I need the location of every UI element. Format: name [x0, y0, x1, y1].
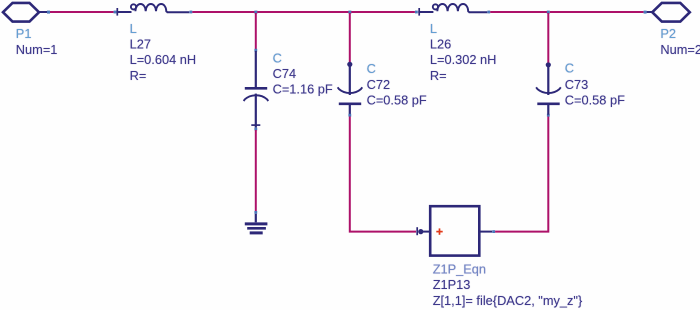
svg-text:L: L — [130, 21, 137, 36]
node marker C72 bottom — [348, 114, 351, 117]
wire node C74 down — [255, 13, 257, 50]
node marker wire-L27 — [114, 11, 117, 14]
svg-text:C73: C73 — [565, 77, 588, 92]
svg-text:C74: C74 — [273, 66, 296, 81]
wire C72 to Z1P13 — [350, 117, 416, 232]
node marker wire-L26 — [415, 11, 418, 14]
svg-text:Z1P13: Z1P13 — [433, 277, 471, 292]
node marker C73 bottom — [547, 114, 550, 117]
plus sign pin 1 — [436, 228, 442, 234]
junction dot C73 — [546, 62, 551, 67]
Z1P13 pin 2 lead — [479, 231, 492, 233]
Z1P_Eqn box Z1P13 — [430, 206, 479, 255]
wire L26 to node C73 — [490, 11, 547, 13]
svg-text:C: C — [565, 60, 574, 75]
wire L27 to node C74 — [192, 11, 255, 13]
wire node C74 to node C72 — [257, 11, 349, 13]
port P2 — [647, 3, 690, 22]
wire node C72 down — [349, 13, 351, 62]
node marker Z1P13 pin 2 — [492, 230, 495, 233]
svg-text:L26: L26 — [430, 37, 451, 52]
wire node C73 down — [547, 13, 549, 63]
svg-text:P2: P2 — [660, 26, 676, 41]
wire node C73 to P2 — [550, 11, 644, 13]
svg-text:C=1.16 pF: C=1.16 pF — [273, 81, 333, 96]
svg-text:L=0.302 nH: L=0.302 nH — [430, 52, 497, 67]
junction dot C72 — [347, 62, 352, 67]
wire P1 to L27 — [50, 11, 114, 13]
svg-text:Z[1,1]= file{DAC2, "my_z"}: Z[1,1]= file{DAC2, "my_z"} — [433, 293, 583, 308]
svg-text:R=: R= — [130, 68, 147, 83]
ground — [245, 214, 268, 233]
node C73 junction — [547, 11, 550, 14]
wire Z1P13 to C73 — [495, 116, 548, 232]
node marker L26-wire — [487, 11, 490, 14]
svg-text:P1: P1 — [16, 26, 32, 41]
svg-text:C72: C72 — [367, 77, 390, 92]
node C74 junction — [254, 11, 257, 14]
svg-text:R=: R= — [430, 68, 447, 83]
node marker P1-wire — [47, 11, 50, 14]
node marker ground — [254, 211, 257, 214]
svg-text:L: L — [430, 21, 437, 36]
svg-text:L=0.604 nH: L=0.604 nH — [130, 52, 197, 67]
node marker C74 bottom — [254, 128, 257, 131]
wire C74 to ground — [255, 130, 257, 211]
wire node C72 to L26 — [351, 11, 415, 13]
svg-text:C: C — [273, 50, 282, 65]
junction dot Z1P13 pin 1 — [417, 227, 430, 235]
capacitor C73 — [536, 65, 561, 115]
svg-text:C=0.58 pF: C=0.58 pF — [367, 92, 427, 107]
svg-text:Num=2: Num=2 — [660, 42, 700, 57]
port P1 — [3, 3, 47, 22]
inductor L27 — [116, 4, 189, 16]
node marker wire-P2 — [644, 11, 647, 14]
svg-text:Z1P_Eqn: Z1P_Eqn — [433, 261, 486, 276]
inductor L26 — [418, 4, 487, 16]
svg-text:L27: L27 — [130, 37, 151, 52]
capacitor C72 — [338, 65, 363, 115]
svg-text:C: C — [367, 61, 376, 76]
svg-text:C=0.58 pF: C=0.58 pF — [565, 92, 625, 107]
node C72 junction — [348, 11, 351, 14]
capacitor C74 — [244, 51, 269, 128]
node marker C74 top — [254, 49, 257, 52]
node marker L27-wire — [190, 11, 193, 14]
svg-text:Num=1: Num=1 — [16, 42, 58, 57]
